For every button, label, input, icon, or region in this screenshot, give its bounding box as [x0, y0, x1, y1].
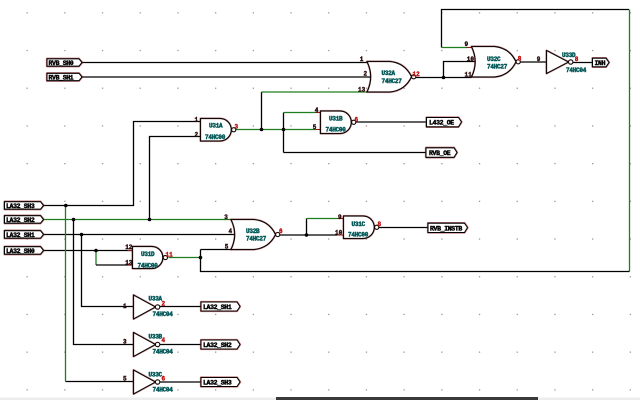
nor gate U32A 74HC27	[358, 56, 420, 93]
svg-text:74HC00: 74HC00	[138, 262, 159, 269]
svg-text:5: 5	[225, 243, 229, 250]
wire U32C output to U33D input	[519, 61, 547, 63]
inverter U33D 74HC04	[547, 51, 587, 75]
pin stub U31D pin 13	[128, 264, 133, 266]
svg-text:74HC00: 74HC00	[205, 134, 226, 141]
svg-text:L432_OE: L432_OE	[429, 120, 454, 127]
svg-text:RVB_SH0: RVB_SH0	[49, 60, 74, 67]
svg-text:U31D: U31D	[141, 251, 155, 258]
nand gate U31C 74HC00	[335, 214, 382, 239]
svg-text:U32A: U32A	[382, 70, 396, 77]
svg-text:74HC27: 74HC27	[382, 78, 403, 85]
wire U33C output to LA32_SH3 label	[160, 381, 202, 383]
pin stub U31C pin 9	[338, 218, 344, 220]
junction U32B output	[305, 233, 309, 237]
inverter U33A 74HC04	[123, 295, 173, 319]
nand gate U31B 74HC00	[313, 107, 359, 134]
junction LA32_SH2 at x=73	[72, 218, 76, 222]
wire feedback loop bottom	[201, 250, 630, 272]
net label LA32_SH0 left	[5, 247, 44, 255]
svg-text:1: 1	[360, 56, 364, 63]
svg-text:3: 3	[123, 338, 127, 345]
wire LA32_SH0 to U31D pin 12	[44, 250, 133, 252]
svg-text:74HC04: 74HC04	[153, 348, 174, 355]
wire green LA32_SH2 to U32B pin 3	[44, 219, 232, 221]
wire U31B output to L432_OE	[355, 121, 427, 123]
nor gate U32B 74HC27	[224, 214, 283, 250]
svg-text:RVB_OE: RVB_OE	[429, 150, 451, 157]
junction LA32_SH1	[80, 233, 84, 237]
wire LA32_SH3 to U31A pin 1	[44, 122, 201, 206]
svg-text:3: 3	[224, 214, 228, 221]
pin stub U31C pin 10	[337, 234, 344, 236]
svg-text:RVB_SH1: RVB_SH1	[49, 75, 74, 82]
svg-text:74HC04: 74HC04	[566, 67, 587, 74]
svg-text:U31B: U31B	[329, 116, 343, 123]
wire RVB_SH0 to U32A pin 1	[82, 62, 370, 64]
svg-text:U33A: U33A	[149, 296, 163, 303]
svg-text:LA32_SH3: LA32_SH3	[6, 203, 35, 210]
net label RVB_OE	[426, 148, 457, 158]
inverter U33C 74HC04	[123, 370, 173, 394]
wire branch to U32C pin 10	[444, 62, 478, 78]
svg-text:8: 8	[518, 55, 522, 62]
wire U31C output to RVB_INSTB	[379, 227, 429, 229]
wire green to U32A pin 13	[262, 91, 368, 93]
svg-text:10: 10	[335, 230, 343, 237]
wire LA32_SH1 to U32B pin 4	[44, 234, 237, 236]
junction U31D output	[199, 256, 203, 260]
svg-text:LA32_SH1: LA32_SH1	[6, 232, 35, 239]
net label RVB_SH0	[47, 59, 82, 67]
wire vertical at U32B output junction	[306, 219, 308, 236]
wire LA32_SH2 branch to U31A pin 2	[150, 137, 201, 220]
pin stub U31D pin 12	[128, 250, 133, 252]
svg-text:LA32_SH3: LA32_SH3	[203, 380, 232, 387]
junction at U32A output	[442, 76, 446, 80]
junction at U31A output	[260, 128, 264, 132]
junction LA32_SH0	[94, 249, 98, 253]
svg-text:U33B: U33B	[149, 334, 163, 341]
scrollbar thumb	[276, 397, 538, 400]
svg-text:74HC27: 74HC27	[246, 235, 267, 242]
svg-text:LA32_SH1: LA32_SH1	[203, 304, 232, 311]
svg-text:LA32_SH0: LA32_SH0	[6, 248, 35, 255]
svg-text:LA32_SH2: LA32_SH2	[203, 342, 232, 349]
wire green U31D output	[169, 257, 201, 259]
svg-text:8: 8	[378, 221, 382, 228]
wire U31D pin 13 horizontal	[96, 264, 133, 266]
net label LA32_SH1 left	[5, 231, 44, 239]
pin stub U31B pin 4	[315, 112, 321, 114]
wire U33B output to LA32_SH2 label	[160, 344, 202, 346]
svg-text:6: 6	[355, 116, 359, 123]
net label LA32_SH3 right	[201, 378, 240, 387]
svg-text:10: 10	[467, 56, 475, 63]
wire green to U31C pin 9	[307, 218, 338, 220]
svg-text:3: 3	[235, 124, 239, 131]
wire vertical U31A output to U32A pin 13	[261, 92, 263, 130]
pin stub U32C pin 9	[467, 47, 473, 49]
svg-text:12: 12	[125, 244, 133, 251]
wire U31D node to U32B pin 5	[201, 249, 233, 251]
net label LA32_SH3 left	[5, 202, 44, 210]
wire green vertical LA32_SH3 down to U33C	[65, 206, 67, 382]
svg-text:4: 4	[229, 228, 233, 235]
svg-text:9: 9	[537, 56, 541, 63]
svg-text:6: 6	[162, 375, 166, 382]
net label L432_OE	[427, 118, 462, 127]
svg-text:4: 4	[162, 337, 166, 344]
wire U33C input horizontal	[66, 381, 135, 383]
svg-text:6: 6	[279, 228, 283, 235]
wire U33A output to LA32_SH1 label	[160, 306, 202, 308]
scrollbar track	[0, 398, 640, 400]
junction at U31B branch	[282, 128, 286, 132]
svg-text:74HC00: 74HC00	[326, 126, 347, 133]
svg-text:11: 11	[465, 71, 473, 78]
svg-text:2: 2	[195, 132, 199, 139]
net label INH	[593, 58, 610, 67]
svg-text:74HC04: 74HC04	[153, 311, 174, 318]
svg-text:RVB_INSTB: RVB_INSTB	[430, 225, 462, 232]
svg-text:9: 9	[465, 41, 469, 48]
svg-text:U32C: U32C	[487, 56, 501, 63]
wire to RVB_OE	[284, 152, 427, 154]
svg-text:74HC04: 74HC04	[153, 387, 174, 394]
svg-text:4: 4	[315, 107, 319, 114]
svg-text:2: 2	[364, 70, 368, 77]
junction LA32_SH3	[64, 204, 68, 208]
net label RVB_SH1	[47, 73, 82, 81]
svg-text:2: 2	[162, 300, 166, 307]
svg-text:5: 5	[313, 124, 317, 131]
wire LA32_SH1 branch to U33A input	[82, 235, 135, 307]
svg-text:1: 1	[195, 116, 199, 123]
wire feedback loop top	[442, 10, 630, 48]
wire green U31A output main	[236, 129, 317, 131]
wire vertical branch at x=283	[283, 113, 285, 153]
svg-text:12: 12	[413, 71, 421, 78]
wire green to U32C pin 9	[442, 47, 467, 49]
nand gate U31D 74HC00	[125, 244, 173, 269]
wire U32A output to U32C pin 11	[416, 77, 472, 79]
svg-text:74HC00: 74HC00	[348, 232, 369, 239]
wire feedback loop right vertical	[629, 10, 631, 272]
svg-text:5: 5	[123, 375, 127, 382]
wire U32B output to U31C pin 10	[280, 234, 338, 236]
net label LA32_SH2 left	[5, 216, 44, 224]
inverter U33B 74HC04	[123, 333, 173, 357]
nor gate U32C 74HC27	[465, 41, 541, 78]
svg-text:INH: INH	[595, 60, 606, 67]
svg-text:U32B: U32B	[246, 228, 260, 235]
nand gate U31A 74HC00	[195, 116, 239, 141]
net label LA32_SH2 right	[201, 340, 240, 349]
svg-text:13: 13	[125, 260, 133, 267]
wire green LA32_SH0 branch to U31D pin 13	[95, 251, 97, 266]
svg-text:74HC27: 74HC27	[487, 63, 508, 70]
wire U33D output to INH	[573, 62, 593, 64]
pin stub U31B pin 5	[316, 129, 321, 131]
wire RVB_SH1 to U32A pin 2	[82, 76, 373, 78]
svg-text:1: 1	[123, 303, 127, 310]
svg-text:11: 11	[166, 251, 174, 258]
svg-text:U33C: U33C	[149, 372, 163, 379]
net label RVB_INSTB	[428, 223, 468, 232]
svg-text:LA32_SH2: LA32_SH2	[6, 217, 35, 224]
svg-text:U31A: U31A	[209, 123, 223, 130]
svg-text:13: 13	[358, 86, 366, 93]
svg-text:8: 8	[575, 56, 579, 63]
svg-text:U31C: U31C	[352, 221, 366, 228]
svg-text:9: 9	[338, 214, 342, 221]
wire LA32_SH2 branch to U33B input	[74, 220, 135, 345]
junction LA32_SH2 at x=149	[148, 218, 152, 222]
wire green to U31B pin 4	[284, 112, 316, 114]
net label LA32_SH1 right	[201, 302, 240, 311]
